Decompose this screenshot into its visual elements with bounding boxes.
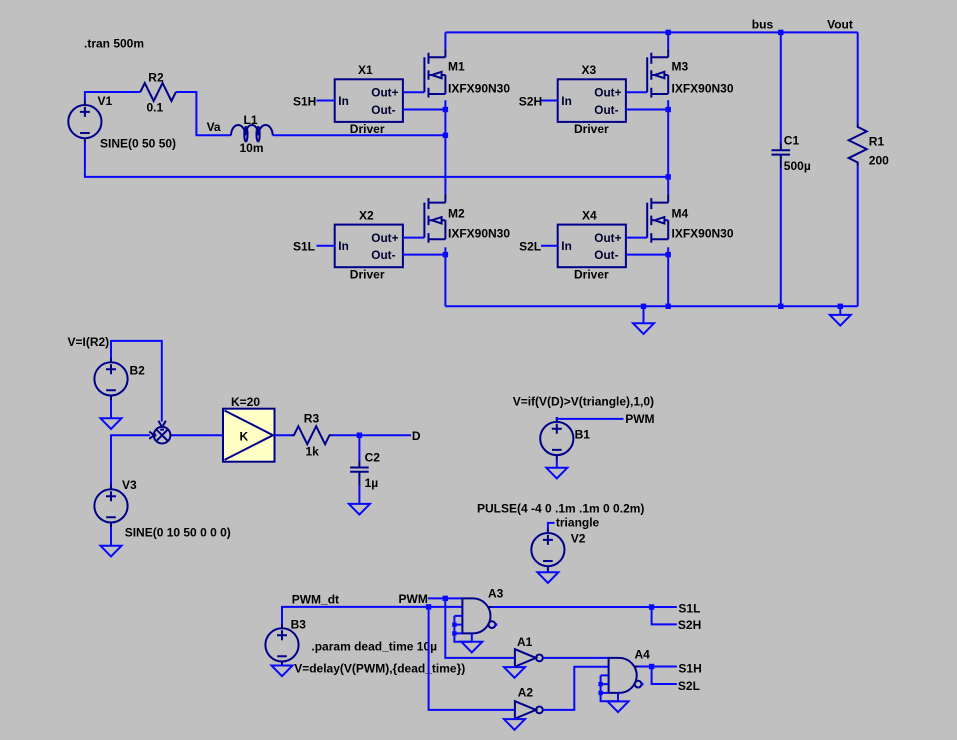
junction M2 source / X2 Out- [443, 252, 448, 257]
transistor M3 [647, 49, 668, 98]
svg-text:.tran 500m: .tran 500m [84, 37, 144, 51]
junction R3 / C2 [357, 433, 362, 438]
source V2 [531, 528, 564, 571]
wire A1 out to A4 in1 [543, 657, 609, 659]
svg-text:IXFX90N30: IXFX90N30 [672, 81, 734, 95]
wire S1L to X2 In [317, 245, 335, 247]
wire M2 source to bottom rail [444, 247, 446, 306]
svg-text:Driver: Driver [350, 122, 385, 136]
ground A2 [504, 719, 525, 730]
wire X4 Out- to M4 source node [626, 254, 668, 256]
svg-text:S2H: S2H [519, 94, 542, 108]
wire branch to S2L [652, 667, 677, 685]
junction rail / M4 [666, 304, 671, 309]
resistor R2 [140, 83, 176, 101]
voltage source V1 [68, 100, 101, 143]
wire B2 bottom to ground [110, 400, 112, 418]
source B3 behavioral [265, 623, 298, 666]
wire A3 out to S1L [493, 606, 677, 608]
wire R1 bottom to rail [857, 166, 859, 306]
svg-text:V=I(R2): V=I(R2) [68, 335, 110, 349]
junction PWM_dt / A2 branch [426, 604, 431, 609]
junction rail / ground1 [641, 304, 646, 309]
svg-text:X2: X2 [359, 209, 374, 223]
svg-text:V2: V2 [571, 531, 586, 545]
junction bus / M3 drain [666, 30, 671, 35]
svg-text:200: 200 [869, 154, 889, 168]
ground V3 [101, 546, 122, 557]
junction A4 out branch [649, 664, 654, 669]
junction V1 return / right midpoint [666, 174, 671, 179]
svg-text:B3: B3 [291, 617, 307, 631]
svg-text:V1: V1 [98, 94, 113, 108]
wire M1 drain to bus [444, 32, 446, 48]
ground A3 [461, 642, 482, 653]
wire M4 source to bottom rail [667, 247, 669, 306]
wire V2 bottom to ground [547, 571, 549, 573]
wire mixer node horizontal [111, 435, 223, 485]
svg-text:.param dead_time 10µ: .param dead_time 10µ [311, 639, 437, 653]
driver X4 [558, 225, 626, 268]
wire V1 top to R2 [85, 92, 140, 101]
junction rail / C1 [778, 304, 783, 309]
junction rail / ground2 [838, 304, 843, 309]
svg-text:M3: M3 [672, 59, 689, 73]
junction L1 / bridge midpoint [443, 133, 448, 138]
ground A1 [504, 667, 525, 678]
source B2 behavioral [94, 357, 127, 400]
wire PWM down to A1 input [445, 598, 515, 658]
resistor R1 [849, 124, 867, 167]
svg-text:Vout: Vout [827, 18, 853, 32]
wire A2 out to A4 in2 [543, 667, 609, 710]
svg-text:A4: A4 [635, 648, 651, 662]
svg-text:D: D [412, 429, 421, 443]
wire M3 drain to bus [667, 32, 669, 48]
svg-text:Driver: Driver [350, 268, 385, 282]
junction M3 source / X3 Out- [666, 107, 671, 112]
svg-text:K: K [240, 429, 249, 443]
svg-text:A2: A2 [518, 686, 534, 700]
inductor L1 [231, 125, 273, 141]
wire PWM_dt down to A2 input [429, 607, 515, 710]
wire L1 to bridge midpoint [273, 134, 446, 136]
driver X3 [558, 79, 626, 122]
ground A4 [608, 701, 629, 712]
transistor M4 [647, 194, 668, 243]
inverter A2 [515, 701, 543, 719]
ground bridge rail [643, 306, 645, 323]
svg-text:C2: C2 [365, 451, 381, 465]
ground V2 [537, 572, 558, 583]
svg-text:PWM_dt: PWM_dt [292, 592, 339, 606]
wire B1 bottom to ground [556, 460, 558, 468]
svg-text:B1: B1 [575, 428, 591, 442]
svg-text:Va: Va [207, 120, 221, 134]
svg-text:K=20: K=20 [231, 395, 260, 409]
inverter A1 [515, 649, 543, 667]
svg-text:R3: R3 [304, 412, 320, 426]
svg-text:bus: bus [752, 18, 774, 32]
multiplier mixer [149, 421, 170, 444]
wire V2 top to triangle flag [548, 523, 555, 529]
wire A4 out to S1H [639, 666, 677, 668]
svg-text:PULSE(4 -4 0 .1m .1m 0 0.2m): PULSE(4 -4 0 .1m .1m 0 0.2m) [477, 501, 644, 515]
wire S2L to X4 In [541, 245, 558, 247]
svg-text:PWM: PWM [399, 592, 428, 606]
svg-text:X1: X1 [358, 63, 373, 77]
ground B3 [272, 666, 293, 677]
svg-text:V3: V3 [122, 478, 137, 492]
svg-text:V=delay(V(PWM),{dead_time}): V=delay(V(PWM),{dead_time}) [294, 661, 465, 675]
wire R3 to node D [333, 434, 411, 436]
svg-text:C1: C1 [784, 134, 800, 148]
svg-text:L1: L1 [244, 113, 258, 127]
transistor M2 [424, 194, 445, 243]
wire M3 source down to M4 drain [667, 100, 669, 194]
driver X1 [335, 79, 403, 122]
capacitor C1 [772, 143, 791, 169]
transistor M1 [424, 49, 445, 98]
wire branch to S2H [652, 607, 677, 624]
junction A3 out branch [649, 604, 654, 609]
source V3 [94, 484, 127, 527]
svg-text:SINE(0 10 50 0 0 0): SINE(0 10 50 0 0 0) [125, 525, 231, 539]
svg-text:S1L: S1L [678, 601, 700, 615]
svg-text:S1H: S1H [293, 94, 316, 108]
svg-text:IXFX90N30: IXFX90N30 [448, 81, 510, 95]
wire B2 top to multiplier [111, 341, 162, 422]
wire X1 Out- to M1 source node [403, 109, 446, 111]
svg-text:triangle: triangle [556, 516, 600, 530]
wire S2H to X3 In [541, 100, 558, 102]
bottom rail wire [445, 305, 857, 307]
svg-text:R1: R1 [869, 134, 885, 148]
wire X3 Out- to M3 source node [626, 109, 668, 111]
svg-text:10m: 10m [240, 141, 264, 155]
and gate A3 [452, 598, 497, 641]
junction M4 source / X4 Out- [666, 252, 671, 257]
svg-text:M2: M2 [448, 207, 465, 221]
wire S1H to X1 In [317, 100, 335, 102]
svg-text:R2: R2 [148, 70, 164, 84]
wire Vout corner to R1 [857, 32, 859, 123]
capacitor C2 [350, 460, 369, 485]
svg-text:X3: X3 [582, 63, 597, 77]
wire X1 Out+ to M1 gate [403, 91, 425, 93]
resistor R3 [291, 426, 333, 444]
source B1 behavioral [540, 417, 573, 460]
svg-text:S2H: S2H [678, 618, 701, 632]
wire X4 Out+ to M4 gate [626, 237, 647, 239]
and gate A4 [598, 658, 643, 701]
svg-text:S1H: S1H [678, 662, 701, 676]
wire V1 bottom to right bridge midpoint [85, 143, 668, 177]
svg-text:M4: M4 [672, 207, 689, 221]
wire M1 source down to M2 drain [444, 100, 446, 194]
svg-text:Driver: Driver [574, 122, 609, 136]
wire PWM flag to A3 in1 [428, 597, 463, 599]
svg-text:0.1: 0.1 [147, 101, 164, 115]
ground B2 [101, 418, 122, 429]
wire B1 top to PWM flag [557, 417, 624, 419]
driver X2 [335, 225, 403, 268]
ground right rail [839, 306, 841, 315]
svg-text:B2: B2 [130, 364, 146, 378]
svg-text:1k: 1k [306, 445, 320, 459]
wire X3 Out+ to M3 gate [626, 91, 647, 93]
svg-text:M1: M1 [448, 59, 465, 73]
svg-text:IXFX90N30: IXFX90N30 [448, 227, 510, 241]
svg-text:X4: X4 [582, 209, 597, 223]
svg-text:IXFX90N30: IXFX90N30 [672, 227, 734, 241]
ground B1 [546, 468, 567, 479]
wire B3 top / PWM_dt to A3 in2 [282, 607, 462, 624]
svg-text:S2L: S2L [519, 240, 541, 254]
wire X2 Out+ to M2 gate [403, 237, 425, 239]
wire B3 bottom to ground [281, 665, 283, 668]
junction bus / C1 [778, 30, 783, 35]
svg-text:A1: A1 [517, 635, 533, 649]
gain block K=20 [223, 409, 275, 462]
top bus wire [445, 31, 857, 33]
svg-text:SINE(0 50 50): SINE(0 50 50) [100, 137, 176, 151]
svg-text:Driver: Driver [574, 268, 609, 282]
svg-text:V=if(V(D)>V(triangle),1,0): V=if(V(D)>V(triangle),1,0) [513, 394, 654, 408]
svg-text:S1L: S1L [293, 240, 315, 254]
wire X2 Out- to M2 source node [403, 254, 446, 256]
junction M1 source / X1 Out- [443, 107, 448, 112]
ground C2 [349, 504, 370, 515]
wire bus to C1 top [780, 32, 782, 143]
svg-text:A3: A3 [488, 587, 504, 601]
svg-text:PWM: PWM [625, 412, 654, 426]
wire node D to C2 [358, 435, 360, 460]
wire V3 bottom to ground [110, 527, 112, 546]
wire R2 to L1 [176, 92, 231, 135]
svg-text:S2L: S2L [678, 679, 700, 693]
svg-text:1µ: 1µ [365, 476, 379, 490]
wire C1 bottom to rail [780, 169, 782, 307]
wire K to R3 [275, 434, 291, 436]
junction PWM / A1 branch [443, 596, 448, 601]
svg-text:500µ: 500µ [784, 159, 811, 173]
wire C2 to ground [358, 486, 360, 504]
